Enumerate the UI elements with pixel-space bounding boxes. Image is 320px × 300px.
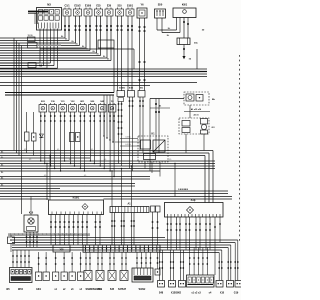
svg-text:0.5 Rd: 0.5 Rd xyxy=(125,144,130,146)
main double bus xyxy=(5,93,114,96)
svg-text:E10/2: E10/2 xyxy=(74,5,81,8)
long pin strip X26 xyxy=(83,245,160,252)
ground bus band xyxy=(0,69,207,77)
svg-text:K10: K10 xyxy=(29,212,34,214)
svg-text:S50: S50 xyxy=(158,3,163,6)
droppers from main bus riser xyxy=(103,95,113,143)
svg-text:0/8S/298S: 0/8S/298S xyxy=(90,289,101,291)
svg-text:Bk: Bk xyxy=(76,44,78,46)
droppers from line xyxy=(150,99,160,172)
svg-text:0.5: 0.5 xyxy=(44,175,46,177)
svg-text:Bk: Bk xyxy=(97,54,99,56)
connector C1/1 xyxy=(63,5,71,16)
svg-text:0.5: 0.5 xyxy=(84,175,86,177)
wire right to cluster xyxy=(150,98,184,100)
dropper to A1p left pin xyxy=(174,163,175,197)
svg-text:S10: S10 xyxy=(117,5,122,8)
svg-text:Bk: Bk xyxy=(93,51,95,53)
wires from N3 down xyxy=(0,29,58,69)
svg-text:Bk: Bk xyxy=(82,46,84,48)
bottom distribution lines xyxy=(12,238,238,253)
svg-text:Bk: Bk xyxy=(72,41,74,43)
inline sensor plug xyxy=(32,112,37,156)
relay K10 xyxy=(24,212,38,247)
svg-text:S10/1: S10/1 xyxy=(127,5,134,8)
svg-text:Bk: Bk xyxy=(1,178,3,180)
svg-text:E25: E25 xyxy=(96,5,101,8)
left bottom terminal wires xyxy=(159,250,184,281)
svg-text:X1S/SKD: X1S/SKD xyxy=(171,292,182,295)
bus corner wires into A1p xyxy=(205,151,213,203)
svg-text:Bk: Bk xyxy=(1,172,3,174)
middle sensor connector row xyxy=(39,101,116,112)
svg-text:Bk: Bk xyxy=(1,152,3,154)
svg-text:E26: E26 xyxy=(107,5,112,8)
switch plugs bottom middle xyxy=(84,252,128,291)
bus left margin labels xyxy=(1,152,3,187)
main harness bus lines xyxy=(0,151,228,194)
svg-text:Bk: Bk xyxy=(65,39,67,41)
svg-text:0.5: 0.5 xyxy=(69,159,71,161)
connector S10/1 xyxy=(126,5,134,16)
ground lead hatched xyxy=(8,233,90,235)
svg-text:S 8/8 8/8/8: S 8/8 8/8/8 xyxy=(178,189,189,191)
harness wrap gray xyxy=(37,44,61,46)
svg-text:N10/1: N10/1 xyxy=(73,197,80,200)
left harness vertical bundle xyxy=(14,38,22,214)
svg-text:0.5: 0.5 xyxy=(104,159,106,161)
sensor wires down to bus xyxy=(40,112,115,177)
wire cluster down to bus xyxy=(186,105,204,153)
pin strip connector A1 xyxy=(110,203,149,213)
connector E10/6 xyxy=(84,5,92,16)
svg-text:0.5: 0.5 xyxy=(29,159,31,161)
wires connector S10/1 down xyxy=(127,16,133,91)
svg-text:s1 s2 s3: s1 s2 s3 xyxy=(191,292,201,295)
junction box sleeve xyxy=(28,37,38,48)
junction box N9 xyxy=(28,63,43,68)
right edge frame dashes xyxy=(238,55,240,243)
svg-text:S47: S47 xyxy=(118,288,123,291)
svg-text:N3: N3 xyxy=(47,2,51,6)
wires connector S10 down to stack xyxy=(117,16,123,91)
svg-text:S45: S45 xyxy=(110,288,115,291)
svg-text:G19: G19 xyxy=(234,292,239,295)
connector S10 xyxy=(116,5,124,16)
module N10/1 xyxy=(49,197,104,215)
svg-text:W10: W10 xyxy=(18,288,24,291)
inline resistor on wire xyxy=(25,112,30,153)
bus line 82 xyxy=(0,82,197,84)
wire fuse to terminal 15 arrow xyxy=(182,45,191,61)
connector E26 xyxy=(105,5,113,16)
harness wires connectors to left edge xyxy=(0,16,112,61)
connector X35 xyxy=(53,245,70,252)
multi-pin connector X53 xyxy=(187,275,215,287)
svg-text:0.5: 0.5 xyxy=(57,149,59,151)
svg-text:A1 e5: A1 e5 xyxy=(193,114,198,117)
svg-text:0.5 Bk: 0.5 Bk xyxy=(125,137,130,139)
wires S50 to K9 xyxy=(157,18,180,37)
cluster A1e upper right xyxy=(184,92,216,105)
droppers bus to pin strip xyxy=(111,165,132,206)
svg-text:A1 e15 e16: A1 e15 e16 xyxy=(191,108,202,111)
wires from N10/1 down xyxy=(50,215,101,246)
right corner bend wires xyxy=(218,240,238,281)
switch S50 xyxy=(155,3,166,18)
wire code labels near K1 xyxy=(125,137,171,162)
svg-text:K9/1: K9/1 xyxy=(182,3,188,6)
connector E25 xyxy=(95,5,103,16)
bus lines above module row xyxy=(0,197,232,200)
svg-text:S47: S47 xyxy=(122,288,127,291)
inline plug pair mid xyxy=(70,133,81,142)
svg-text:S48: S48 xyxy=(159,292,164,295)
sensor plugs row G1 xyxy=(36,252,84,291)
svg-text:A1p: A1p xyxy=(191,199,196,202)
svg-text:G6/1: G6/1 xyxy=(36,289,42,291)
svg-text:Bk: Bk xyxy=(1,165,3,167)
connector E10 pair a xyxy=(128,88,135,172)
wires into W16 box xyxy=(136,252,151,268)
small plug above W16 right xyxy=(155,252,160,275)
svg-text:W16/2: W16/2 xyxy=(139,289,146,291)
blower box W16 xyxy=(132,268,153,282)
bottom terminal boxes xyxy=(158,281,243,288)
pin stack S10/5 xyxy=(117,88,126,167)
relay module K9 xyxy=(173,3,196,17)
control module A1p xyxy=(165,199,224,217)
connector E6 pair b xyxy=(138,88,145,154)
N3 inner pin wires xyxy=(35,13,38,24)
svg-text:S10/5: S10/5 xyxy=(119,88,125,90)
bus line 85 xyxy=(0,85,150,87)
module A1p wires down xyxy=(167,217,221,275)
wires Y6 down xyxy=(139,18,146,91)
riser box top xyxy=(98,40,114,93)
labels A1 right xyxy=(150,105,210,117)
svg-text:Bk: Bk xyxy=(61,36,63,38)
module N3 fuel injection control unit xyxy=(37,2,62,30)
solenoid valve Y6 xyxy=(137,3,147,18)
svg-text:X10: X10 xyxy=(220,292,225,295)
wire stub xyxy=(28,13,37,15)
wire bus to K10 xyxy=(30,197,32,216)
wires into relay cluster xyxy=(115,139,160,177)
svg-text:0.5: 0.5 xyxy=(24,149,26,151)
connector E10/2 xyxy=(74,5,82,16)
wire number labels on bus xyxy=(24,149,106,177)
fuse A1e holder xyxy=(177,38,198,45)
svg-text:Bk: Bk xyxy=(103,56,105,58)
wire run rectangle xyxy=(40,49,197,69)
droppers bus to N10/1 xyxy=(46,155,50,200)
small gauge boxes xyxy=(151,206,161,245)
wires K9 down to fuse xyxy=(177,18,190,39)
svg-text:Bk: Bk xyxy=(107,59,109,61)
svg-text:Bk: Bk xyxy=(1,185,3,187)
wires into X53 xyxy=(189,248,208,276)
terminal 30 feed wire xyxy=(28,11,48,13)
svg-text:E10/6: E10/6 xyxy=(85,5,92,8)
diode symbol on wire xyxy=(39,134,43,138)
horn H2 xyxy=(8,235,15,252)
svg-text:0.5: 0.5 xyxy=(91,149,93,151)
relay cluster K1 xyxy=(138,134,168,162)
svg-text:C1/1: C1/1 xyxy=(64,5,70,8)
bottom label row xyxy=(6,288,239,295)
wires from pin strip down xyxy=(111,213,135,246)
svg-text:Bk: Bk xyxy=(1,157,3,159)
svg-text:X35: X35 xyxy=(59,250,64,252)
cluster A1e lower right xyxy=(179,118,215,134)
ground block W10 xyxy=(10,250,33,291)
